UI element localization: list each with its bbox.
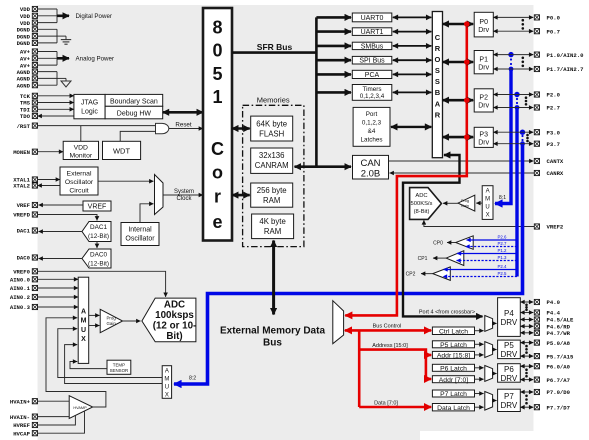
svg-text:U: U [485,205,489,211]
wire P7 DRV to P7.0/D0 [520,391,533,393]
svg-text:Clock: Clock [176,196,192,202]
wire crossbar to P3 Drv thick [443,136,474,139]
pin VREF0 [13,269,37,276]
wire core to FLASH thick [232,127,250,130]
CROSSBAR U-XBAR [432,12,442,158]
svg-text:AIN0.2: AIN0.2 [10,294,31,301]
red address/data trunk [358,330,361,407]
svg-text:Gain: Gain [107,321,117,326]
wire P3 Drv to P3.0 [493,131,533,133]
svg-text:500KS/s: 500KS/s [411,201,433,207]
wire MONEN [38,151,64,153]
pin AGND [17,69,38,76]
wire AIN0.1 [38,287,79,289]
pin AIN0.3 [10,304,38,311]
svg-text:DRV: DRV [501,374,518,383]
wire WDT to gate [120,131,155,141]
svg-text:M: M [485,197,490,203]
block Debug HW [105,106,163,119]
wire XTAL2 [38,185,61,187]
wire SFR bus to SPI Bus [316,59,351,62]
red Data [7:0] wire [359,406,431,409]
svg-text:(12-Bit): (12-Bit) [88,233,109,240]
svg-text:P5.0/A8: P5.0/A8 [547,340,571,347]
prog gain amp U-PGA2 [458,195,475,211]
wire AMUX to prog gain 2 [89,325,100,327]
svg-text:HVAIN+: HVAIN+ [10,398,31,405]
pin P0.7 [534,28,560,35]
svg-text:SMBus: SMBus [361,43,384,50]
wire UART0 to crossbar [393,16,432,18]
dots P5 [525,345,528,348]
external memory mux [333,301,344,344]
pin HVAIN+ [10,398,38,405]
pin TMS [20,100,38,107]
wire P2 Drv to P2.7 [493,107,533,109]
wire P3 Drv to P3.7 [493,143,533,145]
P4 mux [485,316,493,332]
svg-text:Gain: Gain [461,204,469,208]
block 256 byte RAM [251,183,293,207]
svg-text:P1.3: P1.3 [497,255,507,260]
svg-text:P2.6: P2.6 [497,235,507,240]
svg-text:Bit): Bit) [166,331,182,342]
wire temp sensor to AMUX [70,362,107,369]
wire VDD monitor to RST [80,126,82,142]
wire P6 DRV to P6.0/A0 [520,365,533,367]
wire P1.2 to CP1 [457,253,517,255]
P5 mux [485,342,493,358]
pin /RST [17,123,38,130]
wire SFR bus to UART1 [316,30,351,33]
wire SFR bus to SMBus [316,45,351,48]
block 32x136 CANRAM [251,148,293,173]
wire P7 mux to DRV [493,400,497,402]
svg-text:/RST: /RST [17,123,31,130]
svg-text:Debug HW: Debug HW [117,110,152,117]
pin HVREF [13,422,37,429]
pin VREF2 [534,224,564,231]
wire AMUX2 out2 [65,345,163,384]
svg-text:A: A [81,309,86,316]
svg-text:Reset: Reset [175,122,191,129]
wire P5 mux to DRV [493,349,497,351]
svg-text:P2.7: P2.7 [497,241,507,246]
wire P2.7 to CP0 [466,246,518,248]
pin P5.7/A15 [534,353,574,360]
svg-text:C: C [211,139,224,159]
block Timers 0,1,2,3,4 [352,85,392,101]
svg-text:O: O [434,55,440,64]
svg-text:P2.5: P2.5 [497,271,507,276]
svg-text:VREF0: VREF0 [13,269,30,276]
svg-text:Port 4 <from crossbar>: Port 4 <from crossbar> [419,309,475,315]
svg-text:P4.7/WR: P4.7/WR [547,330,571,337]
blue route P2 to comparators [514,92,519,277]
svg-text:VREF: VREF [17,202,31,209]
wire DAC1 to DAC0 [96,242,98,249]
red vert to Addr 7:0 [425,355,428,379]
svg-text:FLASH: FLASH [259,129,284,138]
svg-text:Data Latch: Data Latch [437,405,470,412]
pin CANRX [534,170,564,177]
svg-text:VDD: VDD [74,144,88,151]
pin AV+ [20,62,38,69]
pin P4.4 [534,310,560,317]
wire P6 DRV to P6.7/A7 [520,379,533,381]
svg-text:X: X [165,392,169,398]
reset gate [156,123,169,133]
comparator CP1 [446,251,464,266]
svg-text:P2.7: P2.7 [547,105,560,112]
block SPI Bus [352,56,392,64]
pin HVAIN- [10,414,38,421]
block Boundary Scan [105,94,163,106]
wire latch to P5 mux [475,343,484,345]
pin TDI [20,107,38,114]
wire P2.4 to CP2 [444,269,518,271]
svg-text:P5.7/A15: P5.7/A15 [547,353,574,360]
block CAN 2.0B U-CAN [353,155,389,179]
svg-text:P7 Latch: P7 Latch [440,391,467,398]
dots P6 [525,368,528,371]
svg-text:DRV: DRV [501,401,518,410]
wire DAC0 to pin [39,258,83,260]
wire core to RAM thick [232,194,250,197]
wire CANRAM to CAN thick [295,165,352,168]
wire AIN0.0 [38,278,79,280]
wire CP1 output [433,257,446,259]
wire System Clock to core [163,194,203,196]
svg-text:P1: P1 [479,56,488,63]
svg-text:5: 5 [212,64,222,84]
svg-text:XTAL2: XTAL2 [13,183,30,190]
latch P7 Latch [432,390,474,397]
wire latch to P5 mux [475,354,484,356]
block JTAG Logic U-JTAG [74,94,105,118]
pin P2.0 [534,92,560,99]
svg-text:S: S [435,66,440,75]
wire Debug HW to core thick [163,111,203,114]
wire HVREF [38,415,76,425]
svg-text:8:2: 8:2 [189,375,196,381]
wire TCK to JTAG [38,95,74,97]
svg-text:8:1: 8:1 [499,195,506,201]
ground symbol digital [57,35,66,37]
block 64K byte FLASH [251,116,293,141]
red wire to Addr 7:0 latch [426,378,431,381]
P7 mux [485,392,493,411]
wire AIN0.2 [38,296,79,298]
SFR bus vertical [315,17,318,166]
wire HVAIN+ [38,400,70,402]
svg-text:P6.7/A7: P6.7/A7 [547,377,571,384]
wire VREF0 to ADC [38,271,166,297]
svg-text:DRV: DRV [501,318,518,327]
pin XTAL1 [13,177,37,184]
wire VREF to pin [39,204,84,206]
pin XTAL2 [13,183,37,190]
svg-text:64K byte: 64K byte [256,119,287,128]
ground symbol analog [57,77,66,79]
wire crossbar to P0 Drv thick [443,23,474,26]
svg-text:CAN: CAN [360,158,380,169]
block P0 Drv [474,12,493,37]
pin HVCAP [13,430,37,437]
pin P6.0/A0 [534,363,570,370]
svg-text:JTAG: JTAG [81,100,98,107]
wire HVCAP [38,411,85,434]
blue route P1 to AMUX3 8:1 [495,52,514,204]
block PCA [352,70,392,78]
svg-text:DAC0: DAC0 [90,252,107,259]
svg-text:0,1,2,3: 0,1,2,3 [362,120,382,127]
block P4 DRV [498,298,521,337]
svg-text:1: 1 [212,87,222,107]
svg-text:P7: P7 [504,392,514,401]
wire P2.6 to CP0 [467,239,518,241]
svg-text:AGND: AGND [17,82,31,89]
svg-text:CP2: CP2 [406,272,416,278]
svg-text:Port: Port [366,111,378,118]
wire CANRX [390,172,535,174]
wire AMUX to PGA2 [476,202,482,204]
pin AV+ [20,49,38,56]
svg-text:Addr [15:8]: Addr [15:8] [437,353,470,360]
wire TDO from JTAG [38,115,74,117]
pin VREFD [13,212,37,219]
svg-text:P5 Latch: P5 Latch [440,342,467,349]
Memories group box [243,105,304,246]
pin P6.7/A7 [534,377,570,384]
wire latch to P7 mux [475,406,484,408]
wire prog gain to ADC [123,320,141,322]
External Memory Data Bus arrow [272,241,275,315]
pin P3.0 [534,129,560,136]
wire P1 Drv to P1.7/AIN2.7 [493,68,533,70]
svg-text:HVAIN-: HVAIN- [10,414,30,421]
svg-text:Latches: Latches [360,137,382,144]
latch P5 Latch [432,341,474,348]
pin P7.7/D7 [534,404,570,411]
svg-text:(8-Bit): (8-Bit) [414,209,430,215]
block 4K byte RAM [252,214,294,239]
svg-text:U: U [81,327,86,334]
svg-text:Monitor: Monitor [69,152,92,159]
wire P2.5 to CP2 [443,276,517,278]
svg-text:M: M [164,376,169,382]
svg-text:U: U [165,384,169,390]
wire PGA2 to ADC2 [443,202,458,204]
svg-text:S: S [435,77,440,86]
svg-text:0,1,2,3,4: 0,1,2,3,4 [360,93,385,100]
svg-text:M: M [81,318,87,325]
svg-text:Ctrl Latch: Ctrl Latch [439,328,468,335]
wire P7 DRV to P7.7/D7 [520,406,533,408]
wire P1 Drv to P1.0/AIN2.0 [493,54,533,56]
wire /RST line [38,125,156,127]
svg-text:Addr [7:0]: Addr [7:0] [439,377,469,384]
svg-text:CP1: CP1 [418,256,428,262]
pin P1.7/AIN2.7 [534,66,583,73]
svg-text:Oscillator: Oscillator [125,236,155,243]
svg-text:Timers: Timers [362,86,381,93]
Digital Power arrow [57,15,69,18]
blue route P3 to AMUX2 8:2 [174,130,525,385]
wire Timers to crossbar [393,91,432,93]
wire SFR bus to UART0 [316,16,351,19]
svg-text:AIN0.3: AIN0.3 [10,304,31,311]
latch Ctrl Latch [432,327,474,335]
svg-text:DGND: DGND [17,40,31,47]
svg-text:SENSOR: SENSOR [110,368,129,373]
pin TDO [20,113,38,120]
svg-text:PCA: PCA [365,72,380,79]
svg-text:VREFD: VREFD [13,212,30,219]
red Bus Control wire [345,329,431,332]
dots P7 [525,395,528,398]
svg-text:A: A [435,99,441,108]
svg-text:VREF2: VREF2 [547,224,564,231]
wire AV+ bus [38,51,58,53]
block VREF [83,201,111,211]
wire P1.3 to CP1 [457,260,518,262]
svg-text:R: R [435,44,441,53]
svg-text:Boundary Scan: Boundary Scan [110,98,158,105]
block UART0 [352,13,392,22]
pin DGND [17,40,38,47]
dots P3 [526,134,529,137]
svg-text:DAC1: DAC1 [17,228,31,235]
red route crossbar ports to EMIF [345,24,467,315]
svg-text:CANRAM: CANRAM [255,161,289,170]
pin AIN0.2 [10,294,38,301]
pin MONEN [13,149,37,156]
svg-text:TDO: TDO [20,113,31,120]
wire VREF2 to ADC2 [424,220,534,226]
wire CP2 output [421,273,433,275]
svg-text:P4.4: P4.4 [547,310,561,317]
svg-text:R: R [435,110,441,119]
latch P6 Latch [432,364,474,371]
svg-text:o: o [212,163,223,183]
svg-text:P2: P2 [479,95,488,102]
svg-text:P1.7/AIN2.7: P1.7/AIN2.7 [547,66,584,73]
clock mux [155,175,164,215]
wire XTAL1 [38,179,61,181]
AMUX 8:1 U-AMUX3 [482,186,493,220]
svg-text:2.0B: 2.0B [361,169,381,180]
wire P4 DRV to P4.6/RD [520,325,533,327]
svg-text:Bus Control: Bus Control [373,324,402,330]
svg-text:UART1: UART1 [361,29,384,36]
svg-text:32x136: 32x136 [259,151,285,160]
wire P0 Drv to P0.0 [493,16,533,18]
svg-text:8: 8 [212,18,222,38]
svg-text:P1.2: P1.2 [497,248,507,253]
pin TCK [20,93,38,100]
svg-text:P7.7/D7: P7.7/D7 [547,404,571,411]
svg-text:MONEN: MONEN [13,149,30,156]
wire UART1 to crossbar [393,31,432,33]
svg-text:P0.7: P0.7 [547,28,560,35]
svg-text:P4: P4 [504,309,514,318]
wire HVAMP out to AMUX [46,318,106,407]
wire P4 mux to DRV [493,322,497,324]
wire P2 Drv to P2.0 [493,94,533,96]
svg-text:AIN0.0: AIN0.0 [10,277,31,284]
pin VREF [17,202,38,209]
svg-text:Oscillator: Oscillator [65,179,94,186]
svg-text:TEMP: TEMP [113,362,125,367]
svg-text:Prog: Prog [107,316,117,321]
svg-text:P4.0: P4.0 [547,299,561,306]
wire AGND bus [38,71,58,73]
svg-text:P7.0/D0: P7.0/D0 [547,389,571,396]
wire P4 DRV to P4.5/ALE [520,319,533,321]
red Address [15:0] wire [359,350,426,355]
svg-text:Data [7:0]: Data [7:0] [374,401,398,407]
svg-text:&4: &4 [368,128,376,135]
svg-text:A: A [486,189,490,195]
svg-text:0: 0 [212,41,222,61]
block P2 Drv [474,89,493,112]
wire crossbar to P2 Drv thick [443,99,474,102]
svg-text:Prog: Prog [461,199,469,203]
svg-text:Drv: Drv [478,27,489,34]
pin DAC1 [17,228,38,235]
svg-text:External: External [67,171,92,178]
wire P4 DRV to P4.0 [520,301,533,303]
DAC0 U-DAC0 [82,249,111,268]
pin AGND [17,82,38,89]
wire AMUX to prog gain 1 [89,314,100,316]
svg-text:DAC1: DAC1 [90,224,107,231]
dots P2 [525,96,528,99]
wire Reset to core [169,128,203,130]
svg-text:ADC: ADC [164,300,185,311]
pin P0.0 [534,15,560,22]
wire crossbar to port4 black path [403,155,483,316]
svg-text:256 byte: 256 byte [257,186,287,195]
svg-text:SPI Bus: SPI Bus [359,58,385,65]
wire PCA to crossbar [393,73,432,75]
svg-text:HVAMP: HVAMP [73,406,87,410]
block Internal Oscillator [121,223,159,246]
wire SPI Bus to crossbar [393,59,432,61]
svg-text:System: System [174,189,194,195]
svg-text:Memories: Memories [257,96,290,105]
svg-text:P3: P3 [479,132,488,139]
svg-text:Drv: Drv [478,140,489,147]
wire P5 DRV to P5.7/A15 [520,355,533,357]
svg-text:e: e [212,212,222,232]
svg-text:100ksps: 100ksps [155,310,194,321]
AMUX 8:2 U-AMUX2 [162,366,171,399]
block P5 DRV [498,340,521,359]
dots P1 [522,57,525,60]
block Port 0,1,2,3 &4 Latches [353,107,390,146]
block TEMP SENSOR [107,360,131,374]
svg-text:X: X [486,213,490,219]
svg-text:P2.4: P2.4 [497,264,507,269]
svg-text:Logic: Logic [81,109,98,116]
wire int osc to clock mux [140,204,154,223]
wire P4 DRV to P4.4 [520,312,533,314]
svg-text:X: X [81,336,86,343]
pin VDD [20,6,38,13]
red junction dots [464,21,470,27]
